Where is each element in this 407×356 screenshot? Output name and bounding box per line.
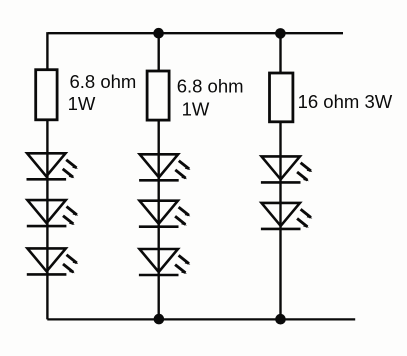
svg-text:16 ohm 3W: 16 ohm 3W: [298, 91, 393, 112]
resistor R3 16 ohm 3W: [270, 73, 293, 122]
svg-text:6.8 ohm: 6.8 ohm: [70, 71, 137, 92]
svg-text:6.8 ohm: 6.8 ohm: [177, 75, 244, 96]
node junction dot bottom-middle: [154, 314, 165, 325]
resistor R2 6.8 ohm 1W: [147, 71, 169, 120]
LED D1 branch1: [27, 153, 78, 179]
LED D4 branch2: [139, 154, 190, 180]
LED D5 branch2: [139, 201, 190, 227]
wire top bus: [48, 32, 343, 34]
LED D7 branch3: [261, 156, 312, 182]
wire bottom bus: [47, 318, 355, 320]
resistor R1 6.8 ohm 1W: [36, 70, 57, 120]
LED D6 branch2: [139, 249, 190, 275]
node junction dot top-middle: [153, 28, 164, 39]
LED D8 branch3: [261, 203, 312, 229]
node junction dot top-right: [275, 28, 286, 39]
node junction dot bottom-right: [275, 314, 286, 325]
svg-text:1W: 1W: [182, 98, 210, 119]
wire branch 2 vertical: [157, 33, 159, 319]
wire branch 1 vertical: [46, 32, 48, 319]
svg-text:1W: 1W: [68, 93, 96, 114]
LED D2 branch1: [27, 200, 78, 226]
wire branch 3 vertical: [279, 33, 281, 319]
LED D3 branch1: [27, 248, 78, 274]
